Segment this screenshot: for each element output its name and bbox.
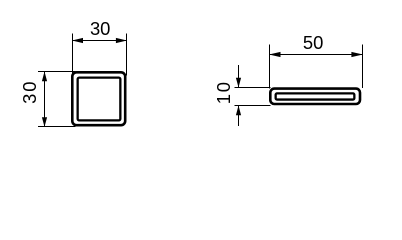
dimension line width 30 [73,40,127,42]
dimension leader line below (10 dim) [238,106,240,127]
dimension line height 30 [44,72,46,127]
extension line right of bar (50 dim) [362,45,364,89]
arrowhead right of width-30 dimension [116,38,127,43]
extension line left-bottom of square [38,126,76,128]
arrowhead pointing up at bar bottom (10 dim) [236,106,241,116]
svg-text:30: 30 [19,80,40,104]
flat bar profile outer outline [270,89,360,104]
svg-text:50: 50 [303,32,323,53]
extension line top-left of square [72,34,74,76]
square tube profile outer outline [72,72,125,125]
square tube profile inner outline [78,78,121,121]
extension line top-right of square [126,34,128,76]
dimension leader line above (10 dim) [238,65,240,88]
extension line left-top of square [38,71,76,73]
arrowhead top of height-30 dimension [42,72,47,82]
extension line bottom of bar (10 dim) [235,105,271,107]
arrowhead right of width-50 dimension [351,52,363,57]
svg-text:30: 30 [90,18,110,39]
dimension line width 50 [270,54,363,56]
flat bar profile inner outline [276,93,355,99]
extension line left of bar (50 dim) [269,45,271,89]
arrowhead left of width-50 dimension [269,52,281,57]
arrowhead pointing down at bar top (10 dim) [236,78,241,88]
svg-text:10: 10 [213,80,234,104]
arrowhead bottom of height-30 dimension [42,117,47,127]
arrowhead left of width-30 dimension [72,38,83,43]
extension line top of bar (10 dim) [235,87,271,89]
